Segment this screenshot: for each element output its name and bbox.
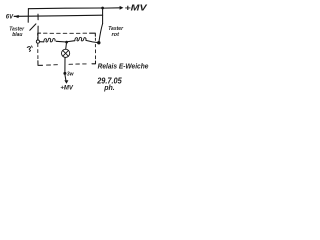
svg-text:6V: 6V: [6, 13, 14, 20]
wire: top +MV rail: [28, 7, 102, 10]
wire: 6V arrowhead: [14, 15, 18, 17]
switch S2 Taster rot: actuator arm: [99, 24, 103, 41]
label: 3V squiggle near lamp: [27, 47, 30, 52]
coil L2: winding loops: [75, 37, 86, 41]
relay K1: dashed enclosure bottom-right corner: [92, 61, 96, 64]
relay K1: dashed enclosure bottom edge: [47, 64, 87, 65]
svg-text:Relais E-Weiche: Relais E-Weiche: [98, 62, 149, 71]
node: 3w junction dot: [63, 72, 66, 75]
svg-text:+MV: +MV: [125, 4, 148, 13]
svg-text:29.7.05: 29.7.05: [96, 76, 122, 86]
wire: right vertical (red taster feed): [102, 8, 104, 24]
wire: 6V horizontal line: [18, 15, 103, 16]
svg-text:blau: blau: [12, 32, 22, 38]
svg-text:3w: 3w: [67, 71, 75, 77]
relay K1: dashed enclosure left edge: [37, 37, 39, 58]
node: relay terminal right (filled dot): [97, 41, 100, 44]
coil L2: left lead: [68, 40, 75, 43]
svg-text:+MV: +MV: [60, 85, 73, 92]
coil L1: left lead: [40, 41, 44, 43]
coil L1: winding loops: [44, 38, 55, 42]
junction: top right dot: [101, 7, 104, 10]
svg-text:ph.: ph.: [103, 85, 115, 92]
svg-text:Taster: Taster: [108, 26, 124, 32]
svg-text:rot: rot: [112, 32, 121, 38]
wire: left corner vertical (blue taster feed): [27, 9, 29, 23]
wire: arrow to +MV (top right): [104, 7, 121, 9]
relay K1: dashed enclosure bottom-left corner: [38, 61, 43, 66]
relay K1: dashed enclosure top edge: [38, 33, 41, 35]
junction: coil midpoint dot: [65, 41, 68, 44]
switch S1 Taster blau: actuator arm: [30, 24, 36, 30]
lamp E1: lower lead: [64, 58, 66, 73]
relay K1: dashed enclosure right edge: [94, 38, 96, 59]
switch S1 Taster blau: lower stub: [37, 26, 39, 40]
coil L2: right lead to terminal: [86, 40, 98, 42]
lamp E1: upper lead: [65, 44, 68, 50]
lamp E1: bulb circle with cross: [62, 49, 70, 57]
coil L1: right lead to junction: [56, 40, 66, 43]
switch S1 Taster blau: upper contact tick: [37, 14, 39, 20]
wire: arrow to +MV (bottom): [65, 75, 66, 81]
node: relay terminal left (open circle): [36, 40, 39, 43]
